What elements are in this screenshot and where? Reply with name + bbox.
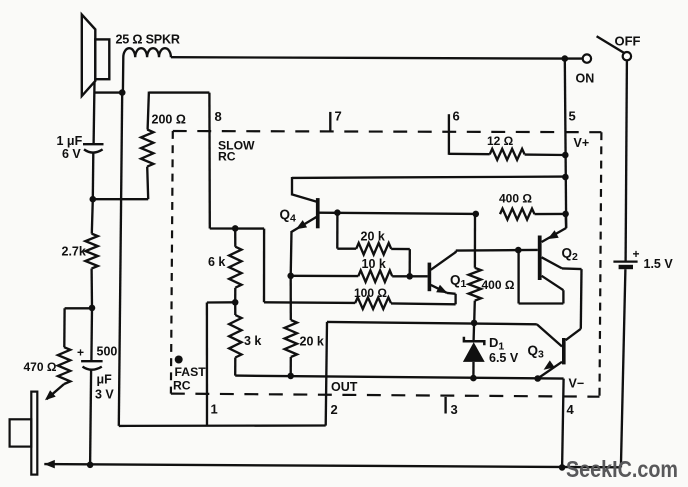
svg-text:2.7k: 2.7k — [62, 245, 86, 259]
resistor 400 ohm top — [500, 209, 565, 220]
wire speaker bottom to cap node — [92, 82, 95, 145]
node 20k-bottom — [287, 373, 294, 380]
svg-text:100 Ω: 100 Ω — [354, 286, 387, 300]
wire coil to switch — [171, 57, 565, 58]
svg-text:6 k: 6 k — [208, 255, 225, 269]
svg-text:4: 4 — [567, 402, 575, 417]
svg-text:+: + — [633, 247, 640, 261]
transistor Q4 base bar — [316, 198, 320, 228]
svg-text:+: + — [77, 346, 84, 360]
label 2.7k — [62, 245, 86, 259]
wire lower rail to OUT — [119, 424, 326, 427]
transistor Q3 collector — [566, 329, 581, 340]
node 6k-3k-pin1 — [232, 299, 239, 306]
node Q1col-Q2base — [515, 247, 522, 254]
label Q4 — [280, 207, 297, 225]
label V- — [569, 377, 585, 391]
switch blade — [597, 36, 624, 53]
wire pin 8 — [208, 93, 211, 229]
svg-text:Q1: Q1 — [450, 273, 467, 291]
inductor 25 ohm SPKR voice coil — [123, 48, 171, 93]
label 100 ohm — [354, 286, 387, 300]
resistor 10k — [291, 270, 410, 282]
label 3V — [95, 388, 114, 402]
svg-text:20 k: 20 k — [300, 335, 324, 349]
IC boundary dashed bottom — [171, 394, 600, 397]
transistor Q4 emitter — [291, 217, 317, 276]
svg-text:8: 8 — [215, 109, 222, 124]
resistor 2.7k — [85, 199, 97, 308]
wire pin 3 stub — [444, 397, 446, 414]
resistor 6k — [229, 228, 241, 302]
svg-text:1.5 V: 1.5 V — [644, 257, 674, 271]
resistor 470 ohm — [47, 308, 93, 399]
label 6k — [208, 255, 225, 269]
transistor Q4 collector — [292, 177, 317, 202]
transistor Q1 base bar — [428, 263, 432, 292]
speaker SPKR (magnet) — [95, 39, 109, 79]
resistor 200 ohm — [141, 92, 153, 200]
label 10k — [362, 257, 386, 271]
label pin 2 — [331, 402, 338, 417]
node 12ohm-V+ — [562, 152, 569, 159]
svg-text:RC: RC — [218, 149, 236, 163]
svg-text:V−: V− — [569, 377, 585, 391]
transistor Q2 collector — [542, 257, 582, 329]
svg-text:3 k: 3 k — [244, 334, 261, 348]
label pin 4 — [567, 402, 575, 417]
label ON — [576, 72, 595, 86]
label pin 1 — [211, 402, 218, 417]
label 400 ohm vertical — [482, 278, 515, 292]
svg-text:Q2: Q2 — [562, 246, 579, 264]
switch OFF contact — [623, 52, 631, 60]
wire to ON contact — [565, 57, 583, 59]
label 6V — [62, 147, 81, 161]
svg-text:ON: ON — [576, 72, 595, 86]
svg-text:μF: μF — [97, 373, 113, 387]
wire OUT line — [327, 322, 537, 324]
wire switch to battery — [626, 61, 627, 262]
svg-text:12 Ω: 12 Ω — [487, 134, 514, 148]
label OUT — [331, 380, 358, 394]
svg-text:25 Ω SPKR: 25 Ω SPKR — [116, 33, 180, 47]
label pin 7 — [335, 109, 342, 124]
label Q3 — [528, 343, 545, 361]
svg-text:3: 3 — [451, 402, 458, 417]
label SLOW — [218, 139, 255, 153]
label 470 ohm — [24, 360, 57, 374]
node coil-speaker junction — [119, 89, 126, 96]
transistor Q1 emitter — [431, 285, 456, 305]
svg-text:500: 500 — [97, 345, 118, 359]
label uF — [97, 373, 113, 387]
wire pin 2 — [326, 322, 327, 426]
label battery + — [633, 247, 640, 261]
svg-text:6 V: 6 V — [62, 147, 81, 161]
label FAST — [175, 365, 207, 379]
label + 500cap — [77, 346, 84, 360]
svg-text:1: 1 — [211, 402, 218, 417]
resistor 20k upper — [337, 213, 410, 277]
svg-text:Q3: Q3 — [528, 343, 545, 361]
wire bottom ground rail — [44, 464, 621, 467]
svg-text:6.5 V: 6.5 V — [489, 351, 519, 365]
node Q4col-V+ — [562, 174, 569, 181]
resistor 12 ohm — [449, 149, 565, 160]
label Q1 — [450, 273, 467, 291]
diode D1 zener — [463, 323, 485, 378]
label pin 3 — [451, 402, 458, 417]
svg-text:3 V: 3 V — [95, 388, 114, 402]
IC boundary dashed right — [600, 132, 602, 397]
label 6.5V — [489, 351, 519, 365]
IC boundary dashed top — [173, 131, 602, 132]
label 200 ohm — [152, 113, 186, 127]
svg-text:200 Ω: 200 Ω — [152, 113, 186, 127]
svg-text:OUT: OUT — [331, 380, 358, 394]
svg-text:6: 6 — [453, 109, 460, 124]
transistor Q2 emitter — [542, 214, 567, 242]
transistor Q1 collector — [431, 250, 519, 270]
svg-text:OFF: OFF — [615, 34, 641, 49]
svg-text:SeekIC.com: SeekIC.com — [566, 456, 678, 482]
label 20k lower — [300, 335, 324, 349]
IC boundary dashed left — [171, 131, 173, 394]
wire main left vertical — [119, 93, 122, 426]
transistor Q3 base lead — [537, 324, 562, 346]
svg-text:470 Ω: 470 Ω — [24, 360, 57, 374]
transistor Q3 emitter — [538, 360, 562, 378]
capacitor 1uF 6V — [83, 144, 104, 199]
label OFF — [615, 34, 641, 49]
transistor Q2 base lead — [518, 249, 538, 252]
wire pin 1 — [207, 302, 235, 425]
wire Q4 collector rail — [292, 177, 566, 178]
node 20k-10k-Q4e — [287, 273, 294, 280]
resistor 400 ohm vertical — [469, 214, 481, 323]
switch ON contact — [583, 54, 591, 62]
wire pin 7 stub — [329, 112, 331, 131]
wire battery to rail — [621, 269, 626, 467]
arrow 470 ohm to jack — [45, 390, 56, 400]
label pin 8 — [215, 109, 222, 124]
node D1 bottom — [470, 375, 477, 382]
node Q3e-V- — [534, 375, 541, 382]
wire speaker tap to coil node — [94, 91, 122, 93]
transistor Q2 base bar — [538, 236, 542, 281]
battery 1.5V plates — [613, 262, 637, 267]
label 3k — [244, 334, 261, 348]
node 400ohmv top — [473, 211, 480, 218]
node 6k top — [232, 225, 239, 232]
wire 200ohm bottom link — [93, 198, 148, 200]
label Q2 — [562, 246, 579, 264]
resistor 20k lower — [285, 276, 297, 376]
node Q4base-20k — [334, 209, 341, 216]
wire pin8 internal — [210, 229, 264, 303]
resistor 200 ohm route top — [149, 91, 209, 93]
label 500 — [97, 345, 118, 359]
svg-text:7: 7 — [335, 109, 342, 124]
node 2.7k-470-500 junction — [89, 305, 96, 312]
transistor Q1 base lead — [410, 275, 428, 277]
label SLOW RC — [218, 149, 236, 163]
label 12 ohm — [487, 134, 514, 148]
node FAST RC dot — [175, 356, 183, 364]
node pin4-rail — [559, 464, 566, 471]
svg-text:1 μF: 1 μF — [57, 134, 83, 148]
node 400ohm-OUT — [471, 320, 478, 327]
label 1.5V — [644, 257, 674, 271]
svg-text:RC: RC — [173, 379, 191, 393]
node cap-200ohm junction — [90, 196, 97, 203]
capacitor 500uF 3V — [81, 308, 103, 465]
svg-text:400 Ω: 400 Ω — [499, 192, 532, 206]
label V+ — [574, 136, 590, 150]
resistor 100 ohm — [264, 297, 456, 309]
wire V+ rail — [565, 59, 566, 228]
node 400ohm-V+ — [562, 211, 569, 218]
jack transducer body — [10, 419, 32, 446]
svg-text:400 Ω: 400 Ω — [482, 278, 515, 292]
wire internal V- line — [235, 376, 563, 379]
jack transducer bar — [31, 392, 37, 475]
node switch junction — [562, 55, 569, 62]
label 400 ohm top — [499, 192, 532, 206]
watermark SeekIC.com — [566, 456, 678, 482]
label pin 6 — [453, 109, 460, 124]
transistor Q2 collector2 loop — [519, 250, 564, 303]
transistor Q3 base bar — [562, 338, 566, 364]
label FAST RC — [173, 379, 191, 393]
label pin 5 — [569, 109, 576, 124]
node 500uF-rail junction — [87, 462, 94, 469]
svg-text:2: 2 — [331, 402, 338, 417]
wire Q4 base line — [319, 213, 477, 214]
wire pin 4 — [562, 379, 564, 468]
svg-text:20 k: 20 k — [361, 230, 385, 244]
svg-text:10 k: 10 k — [362, 257, 386, 271]
resistor 3k — [229, 302, 241, 375]
arrow rail to jack — [44, 460, 55, 469]
svg-text:Q4: Q4 — [280, 207, 297, 225]
label D1 — [489, 335, 504, 353]
label 1uF — [57, 134, 83, 148]
svg-text:FAST: FAST — [175, 365, 207, 379]
node 10k-Q1 base — [406, 273, 413, 280]
speaker SPKR (cone) — [82, 15, 96, 96]
wire pin 6 stub — [448, 114, 450, 155]
label 20k upper — [361, 230, 385, 244]
svg-text:5: 5 — [569, 109, 576, 124]
svg-text:V+: V+ — [574, 136, 590, 150]
label 25 ohm SPKR — [116, 33, 180, 47]
